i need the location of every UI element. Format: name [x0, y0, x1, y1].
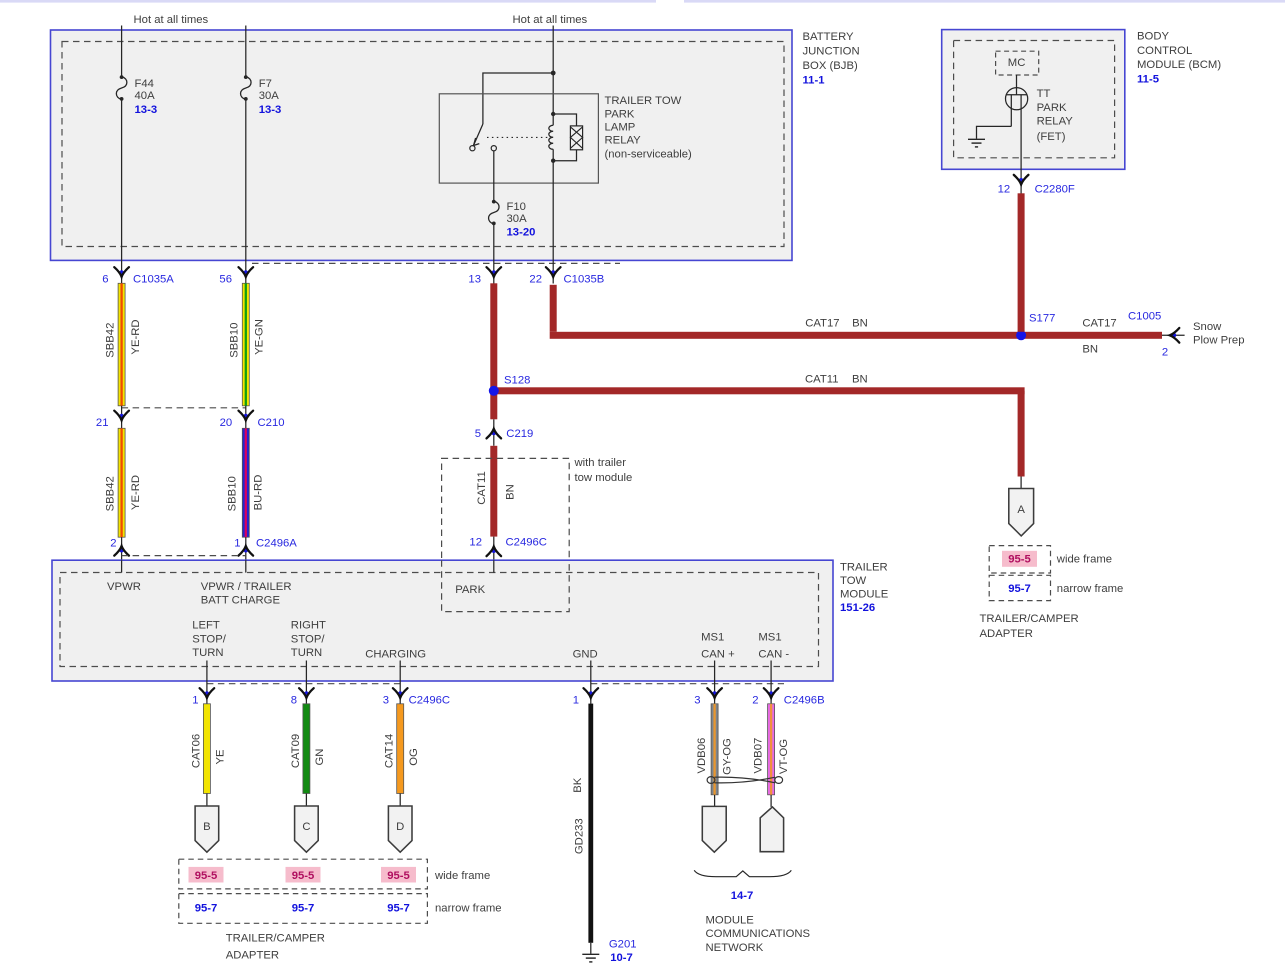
svg-text:95-5: 95-5	[292, 870, 315, 882]
connector A	[1009, 489, 1034, 536]
svg-text:12: 12	[998, 183, 1011, 195]
svg-text:YE-RD: YE-RD	[130, 475, 142, 510]
svg-text:wide frame: wide frame	[1056, 554, 1112, 566]
wire VDB07 VT-OG	[768, 704, 775, 795]
svg-text:TRAILER/CAMPER: TRAILER/CAMPER	[980, 613, 1079, 625]
svg-text:1: 1	[234, 537, 240, 549]
wire CAT11 BN down to A	[1018, 391, 1025, 477]
svg-text:VT-OG: VT-OG	[778, 739, 790, 774]
svg-text:5: 5	[475, 428, 481, 440]
ground G201	[582, 954, 599, 962]
wire pin 2 stub	[121, 537, 123, 560]
junction dot relay branch	[551, 71, 556, 76]
svg-text:6: 6	[102, 273, 108, 285]
svg-text:BN: BN	[852, 373, 868, 385]
wire C1005 end stub	[1162, 334, 1185, 336]
svg-text:wide frame: wide frame	[434, 870, 490, 882]
svg-text:tow module: tow module	[575, 472, 633, 484]
connector C1035 dashed line	[252, 262, 620, 264]
svg-text:with trailer: with trailer	[574, 457, 627, 469]
wire stub pin 5	[493, 419, 495, 446]
svg-text:2: 2	[110, 537, 116, 549]
pin 1 arrow left stop	[200, 688, 215, 698]
splice S128	[489, 386, 499, 396]
svg-text:11-1: 11-1	[803, 74, 825, 86]
svg-text:SBB10: SBB10	[227, 476, 239, 511]
svg-text:TRAILER: TRAILER	[840, 561, 888, 573]
module stub MS1 CAN-	[770, 661, 772, 682]
wire pin 12 stub	[493, 537, 495, 561]
wire CAT11 BN horizontal	[494, 387, 1025, 394]
svg-text:CAT06: CAT06	[190, 734, 202, 768]
wire FET to ground	[977, 126, 1012, 138]
svg-text:BK: BK	[572, 777, 584, 793]
svg-text:C210: C210	[258, 417, 285, 429]
wire stub pin 1 arrow gnd	[590, 681, 592, 704]
wire coil to pin 22	[552, 161, 554, 261]
svg-text:C1035B: C1035B	[564, 273, 605, 285]
svg-text:Plow Prep: Plow Prep	[1193, 334, 1245, 346]
module stub VPWR trailer	[245, 560, 247, 572]
svg-text:C2496A: C2496A	[256, 537, 297, 549]
svg-text:95-5: 95-5	[195, 870, 218, 882]
svg-text:CAT17: CAT17	[1082, 317, 1116, 329]
svg-text:13: 13	[468, 273, 481, 285]
connector CAN-	[760, 807, 783, 852]
connector C2496B dashed line	[591, 683, 784, 685]
connector C	[295, 806, 319, 852]
pin 3 arrow charging	[393, 688, 408, 698]
svg-text:OG: OG	[408, 748, 420, 766]
module stub charging	[399, 661, 401, 682]
narrow frame box 95-7 BCD	[179, 894, 428, 924]
relay coil	[549, 112, 556, 163]
svg-text:MODULE: MODULE	[840, 588, 889, 600]
connector C2496C dashed line	[207, 683, 400, 685]
wire stub pin 3 arrow charging	[399, 681, 401, 704]
fuse F44 40A	[116, 75, 127, 101]
wire stub pin 1 arrow left stop	[206, 681, 208, 704]
MC microcontroller dashed box	[996, 51, 1039, 75]
wire CAT09 GN	[303, 704, 310, 794]
svg-text:CAN -: CAN -	[758, 649, 789, 661]
svg-text:2: 2	[752, 694, 758, 706]
svg-text:TOW: TOW	[840, 575, 866, 587]
svg-text:13-3: 13-3	[135, 104, 158, 116]
svg-text:3: 3	[694, 694, 700, 706]
svg-text:30A: 30A	[507, 213, 528, 225]
pin 20 arrow C210	[239, 411, 254, 421]
svg-text:JUNCTION: JUNCTION	[803, 46, 860, 58]
wire stub connector B	[206, 794, 208, 807]
svg-text:F10: F10	[507, 201, 526, 213]
svg-text:TRAILER TOW: TRAILER TOW	[605, 95, 682, 107]
svg-text:CAT11: CAT11	[476, 471, 488, 504]
wire stub pin 3 arrow CAN+	[714, 681, 716, 704]
svg-text:13-3: 13-3	[259, 104, 282, 116]
svg-text:TT: TT	[1037, 88, 1051, 100]
svg-text:22: 22	[529, 273, 542, 285]
svg-text:56: 56	[219, 273, 232, 285]
wire stub pin 20	[245, 406, 247, 429]
top border strip right	[684, 0, 1285, 3]
module stub left stop turn	[206, 661, 208, 682]
module stub right stop turn	[305, 661, 307, 682]
pin 8 arrow right stop	[299, 688, 314, 698]
svg-text:BN: BN	[505, 484, 517, 500]
svg-text:BODY: BODY	[1137, 30, 1169, 42]
twisted pair symbol	[707, 777, 783, 784]
svg-text:NETWORK: NETWORK	[706, 942, 764, 954]
svg-text:MC: MC	[1008, 57, 1026, 69]
wire branch to relay switch	[483, 73, 553, 124]
relay suppression resistor	[553, 114, 582, 161]
pin 2 arrow CAN-	[764, 688, 779, 698]
svg-text:STOP/: STOP/	[192, 633, 227, 645]
svg-text:GD233: GD233	[574, 818, 586, 854]
svg-text:ADAPTER: ADAPTER	[226, 950, 279, 962]
trailer tow module box	[52, 560, 833, 681]
svg-text:GND: GND	[573, 649, 598, 661]
svg-text:BATT CHARGE: BATT CHARGE	[201, 595, 281, 607]
svg-text:PARK: PARK	[455, 584, 485, 596]
pin 21 arrow	[114, 411, 129, 421]
svg-text:1: 1	[192, 694, 198, 706]
wire stub to connector A	[1020, 477, 1022, 489]
connector CAN+	[702, 806, 726, 852]
svg-text:C2280F: C2280F	[1035, 183, 1075, 195]
wire stub CAN- connector	[770, 795, 772, 807]
wire pin 6 stub	[121, 261, 123, 284]
relay switch contact right	[491, 146, 496, 151]
svg-text:YE-GN: YE-GN	[253, 319, 265, 355]
connector D	[388, 806, 412, 852]
wire hot feed to F7	[245, 26, 247, 77]
svg-text:SBB42: SBB42	[105, 323, 117, 358]
wire pin 12 BCM stub	[1020, 170, 1022, 194]
wire stub pin 2 arrow CAN-	[770, 681, 772, 704]
svg-text:C2496C: C2496C	[506, 537, 547, 549]
svg-text:C2496B: C2496B	[784, 694, 825, 706]
svg-text:BN: BN	[852, 317, 868, 329]
svg-text:(non-serviceable): (non-serviceable)	[605, 149, 693, 161]
svg-text:VDB07: VDB07	[752, 738, 764, 774]
wire stub pin 21	[121, 406, 123, 429]
svg-text:BOX (BJB): BOX (BJB)	[803, 60, 858, 72]
svg-text:C2496C: C2496C	[409, 694, 450, 706]
svg-text:40A: 40A	[135, 90, 156, 102]
fuse F7 30A	[241, 75, 252, 101]
svg-text:95-7: 95-7	[195, 903, 218, 915]
pin 6 arrow C1035A	[114, 267, 129, 277]
svg-text:PARK: PARK	[1037, 102, 1067, 114]
module stub MS1 CAN+	[714, 661, 716, 682]
svg-text:RELAY: RELAY	[1037, 116, 1074, 128]
svg-text:F44: F44	[135, 78, 154, 90]
wire BN pin22 vertical	[550, 285, 557, 332]
body control module BCM	[942, 30, 1125, 170]
svg-text:CAT09: CAT09	[290, 734, 302, 768]
svg-text:CONTROL: CONTROL	[1137, 45, 1192, 57]
svg-text:VPWR: VPWR	[107, 581, 141, 593]
wire BK to ground	[590, 943, 592, 954]
wire pin 1 stub	[245, 537, 247, 560]
pin 2 arrow C1005	[1170, 328, 1180, 343]
svg-text:10-7: 10-7	[610, 952, 633, 964]
pin 1 arrow gnd	[584, 688, 599, 698]
pin 22 arrow C1035B	[546, 267, 561, 277]
svg-text:GY-OG: GY-OG	[722, 738, 734, 775]
svg-text:MS1: MS1	[701, 631, 724, 643]
svg-text:S177: S177	[1029, 313, 1055, 325]
svg-text:(FET): (FET)	[1037, 131, 1066, 143]
pin 5 arrow C219	[487, 429, 502, 439]
wire pin 22 stub	[552, 261, 554, 284]
svg-text:CHARGING: CHARGING	[365, 649, 426, 661]
svg-text:1: 1	[573, 694, 579, 706]
wire F7 to pin 56	[245, 100, 247, 261]
wire pin 56 stub	[245, 261, 247, 284]
wire F10 to pin 13	[493, 224, 495, 261]
wire stub pin 8 arrow right stop	[305, 681, 307, 704]
connector C2496A dashed line	[122, 555, 246, 557]
wire CAT17 BN horizontal	[550, 332, 1162, 339]
pin 12 arrow C2496C	[487, 547, 502, 557]
wire SBB10 BU-RD	[242, 428, 249, 537]
svg-text:14-7: 14-7	[731, 890, 754, 902]
wire F44 to pin 6	[121, 100, 123, 261]
pin 1 arrow C2496A	[239, 546, 254, 556]
pin 56 arrow	[239, 267, 254, 277]
wire stub CAN+ connector	[714, 795, 716, 807]
top border strip left	[0, 0, 656, 3]
relay TRAILER TOW PARK LAMP RELAY box	[439, 94, 598, 183]
svg-text:21: 21	[96, 417, 109, 429]
svg-text:CAT11: CAT11	[805, 373, 838, 385]
svg-text:PARK: PARK	[605, 108, 635, 120]
module stub gnd	[590, 661, 592, 682]
svg-text:ADAPTER: ADAPTER	[980, 628, 1033, 640]
svg-text:2: 2	[1162, 347, 1168, 359]
svg-text:13-20: 13-20	[507, 227, 536, 239]
module stub PARK	[493, 560, 495, 572]
svg-text:B: B	[203, 821, 211, 833]
svg-text:GN: GN	[314, 749, 326, 766]
svg-text:Hot at all times: Hot at all times	[134, 14, 209, 26]
svg-text:11-5: 11-5	[1137, 74, 1159, 86]
svg-text:CAT17: CAT17	[805, 317, 839, 329]
svg-text:C: C	[302, 821, 310, 833]
svg-text:SBB10: SBB10	[229, 323, 241, 358]
svg-text:Snow: Snow	[1193, 321, 1222, 333]
connector C210 dashed line	[122, 407, 246, 409]
svg-text:RELAY: RELAY	[605, 135, 642, 147]
wire stub connector D	[399, 794, 401, 807]
fuse F10 30A	[489, 200, 500, 226]
svg-text:STOP/: STOP/	[291, 633, 326, 645]
svg-text:Hot at all times: Hot at all times	[513, 14, 588, 26]
wire SBB42 YE-RD upper	[118, 283, 125, 406]
wire SBB42 YE-RD lower	[118, 428, 125, 537]
svg-text:CAT14: CAT14	[384, 734, 396, 768]
svg-text:COMMUNICATIONS: COMMUNICATIONS	[706, 928, 811, 940]
wire CAT11 BN upper	[490, 283, 497, 391]
svg-text:MODULE (BCM): MODULE (BCM)	[1137, 59, 1221, 71]
svg-text:BN: BN	[1082, 343, 1098, 355]
wide frame box 95-5 BCD	[179, 859, 428, 889]
svg-text:30A: 30A	[259, 90, 280, 102]
svg-text:95-5: 95-5	[1008, 554, 1031, 566]
svg-text:C1035A: C1035A	[133, 273, 174, 285]
svg-text:12: 12	[469, 537, 482, 549]
svg-text:20: 20	[220, 417, 233, 429]
svg-text:95-7: 95-7	[292, 903, 315, 915]
wire SBB10 YE-GN	[242, 283, 249, 406]
module stub VPWR	[121, 560, 123, 572]
ground BCM internal	[968, 139, 985, 147]
wire stub connector C	[305, 794, 307, 807]
svg-text:95-7: 95-7	[387, 903, 410, 915]
svg-text:CAN +: CAN +	[701, 649, 735, 661]
wire CAT14 OG	[397, 704, 404, 794]
svg-text:C219: C219	[506, 428, 533, 440]
svg-text:BATTERY: BATTERY	[803, 31, 855, 43]
svg-text:C1005: C1005	[1128, 311, 1161, 323]
svg-text:BU-RD: BU-RD	[252, 475, 264, 511]
splice S177	[1016, 330, 1026, 340]
battery junction box BJB	[51, 30, 793, 260]
wire GD233 BK	[588, 704, 593, 943]
wire pin 13 stub	[493, 261, 495, 284]
connector B	[195, 806, 219, 852]
wire CAT06 YE	[203, 704, 210, 794]
transistor TT park relay FET	[1006, 88, 1028, 170]
svg-text:TRAILER/CAMPER: TRAILER/CAMPER	[226, 932, 325, 944]
svg-text:YE: YE	[215, 749, 227, 765]
narrow frame box 95-7 A	[989, 575, 1050, 600]
svg-text:151-26: 151-26	[840, 602, 875, 614]
dashed box with trailer tow module inner part	[442, 560, 570, 611]
wire MC to FET	[1016, 75, 1018, 95]
pin 12 arrow C2280F	[1014, 175, 1029, 185]
svg-text:LAMP: LAMP	[605, 122, 636, 134]
wire CAT11 BN lower	[490, 446, 497, 537]
dashed box with trailer tow module	[442, 458, 570, 611]
svg-text:3: 3	[383, 694, 389, 706]
wire hot feed to F44	[121, 26, 123, 77]
svg-text:MODULE: MODULE	[706, 914, 755, 926]
wire relay contact to F10	[493, 151, 495, 201]
svg-text:RIGHT: RIGHT	[291, 620, 326, 632]
relay switch contact left	[470, 146, 475, 151]
relay switch arm	[474, 124, 483, 146]
wire CAT17 BN from BCM	[1018, 193, 1025, 331]
svg-text:TURN: TURN	[192, 647, 223, 659]
svg-text:SBB42: SBB42	[105, 476, 117, 511]
svg-text:LEFT: LEFT	[192, 620, 220, 632]
svg-text:G201: G201	[609, 938, 637, 950]
wide frame box 95-5 A	[989, 546, 1050, 573]
pin 2 arrow	[114, 546, 129, 556]
svg-text:TURN: TURN	[291, 647, 322, 659]
svg-text:VPWR / TRAILER: VPWR / TRAILER	[201, 581, 292, 593]
svg-text:95-7: 95-7	[1008, 583, 1031, 595]
pin 13 arrow	[487, 267, 502, 277]
svg-text:F7: F7	[259, 78, 272, 90]
brace module communications network	[694, 870, 791, 876]
svg-text:YE-RD: YE-RD	[130, 319, 142, 354]
wire BN below S128	[490, 392, 497, 419]
svg-text:S128: S128	[504, 375, 530, 387]
pin 3 arrow CAN+	[707, 688, 722, 698]
wire hot feed to relay coil	[552, 26, 554, 115]
svg-text:A: A	[1017, 504, 1025, 516]
wire VDB06 GY-OG	[711, 704, 718, 795]
svg-text:MS1: MS1	[758, 631, 781, 643]
svg-text:95-5: 95-5	[387, 870, 410, 882]
svg-text:narrow frame: narrow frame	[1057, 583, 1124, 595]
svg-text:VDB06: VDB06	[696, 738, 708, 774]
svg-text:narrow frame: narrow frame	[435, 902, 502, 914]
svg-text:8: 8	[291, 694, 297, 706]
svg-text:D: D	[396, 821, 404, 833]
relay actuation dotted line	[487, 136, 549, 138]
